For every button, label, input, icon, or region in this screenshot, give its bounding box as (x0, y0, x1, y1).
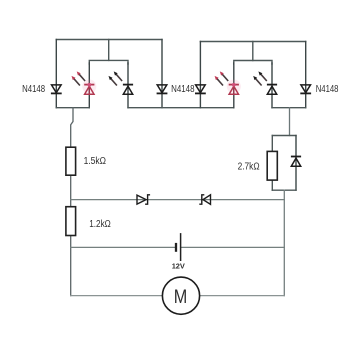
wire PD7 branch vertical (271, 63, 273, 108)
wire D8 branch vertical (305, 42, 307, 108)
wire bottom rail (71, 295, 285, 297)
LED D2 pink glow (82, 80, 96, 94)
wire R2 to bottom rail (70, 236, 72, 296)
diode D1 N4148 (51, 85, 62, 94)
resistor R1 1.5k (66, 147, 76, 175)
wire R3 bottom lead (271, 180, 273, 190)
wire right group top-bus to inner-bus stub (252, 42, 254, 61)
resistor R3 2.7k (267, 151, 277, 180)
LED D2 red (84, 85, 94, 95)
battery BT1 negative plate (short) (175, 243, 177, 252)
wire left group top-bus to inner-bus stub (108, 40, 110, 61)
diode D9 (parallel with R3) (291, 157, 301, 167)
resistor R2 1.2k (66, 207, 76, 236)
wire D5 branch vertical (199, 42, 201, 108)
svg-text:2.7kΩ: 2.7kΩ (238, 162, 260, 173)
wire LED6 branch vertical (233, 63, 235, 108)
wire right group bottom bus (right pair) (272, 107, 306, 109)
svg-text:1.2kΩ: 1.2kΩ (89, 219, 111, 230)
wire left group bottom bus (left pair) (56, 107, 89, 109)
svg-text:N4148: N4148 (316, 84, 339, 95)
wire R1 to R2 (70, 175, 72, 207)
wire left group inner bus (89, 60, 128, 64)
wire battery rail right (181, 246, 285, 248)
svg-text:M: M (174, 286, 188, 308)
wire right group bus down to combo (289, 108, 291, 136)
wire middle horizontal (71, 199, 285, 201)
wire center bottom bus (128, 107, 234, 109)
svg-text:12V: 12V (172, 261, 185, 270)
motor M1 circle (162, 277, 199, 314)
wire PD1 branch vertical (127, 63, 129, 108)
wire D9 branch vertical (295, 136, 297, 191)
wire R3 top lead (271, 136, 273, 152)
LED D6 light arrows (215, 71, 229, 85)
svg-text:N4148: N4148 (171, 84, 195, 95)
wire right main vertical (283, 190, 285, 295)
photodiode D3 (123, 85, 133, 95)
wire battery rail left (71, 246, 176, 248)
photodiode D7 light arrows (253, 71, 267, 85)
diode D5 N4148 (195, 85, 206, 94)
LED D6 pink glow (227, 80, 241, 94)
diode D8 N4148 (300, 85, 311, 94)
junction dot LED D2 (87, 83, 91, 87)
wire right group top bus (200, 41, 305, 43)
svg-text:1.5kΩ: 1.5kΩ (84, 156, 106, 167)
junction dot LED D6 (232, 83, 236, 87)
photodiode D3 light arrows (109, 71, 123, 85)
LED D2 red wire segment (88, 85, 90, 95)
LED D2 light arrows (72, 71, 86, 85)
wire D2 branch vertical (161, 40, 163, 108)
wire bus to R1 (with jog) (71, 108, 73, 148)
wire D1 branch vertical (55, 40, 57, 108)
wire combo top bar (272, 135, 296, 137)
svg-text:N4148: N4148 (22, 84, 45, 95)
wire left group top bus (56, 39, 162, 41)
diode D4 N4148 (157, 85, 168, 94)
wire right group inner bus (234, 61, 272, 65)
zener Z1 (pointing right) (137, 195, 150, 204)
wire LED1 branch vertical (88, 63, 90, 108)
LED D6 red wire segment (233, 85, 235, 95)
wire combo bottom bar (272, 189, 296, 191)
photodiode D7 (267, 85, 277, 95)
zener Z2 (pointing left) (199, 195, 210, 205)
battery BT1 positive plate (long) (180, 233, 182, 261)
LED D6 red (229, 85, 239, 95)
